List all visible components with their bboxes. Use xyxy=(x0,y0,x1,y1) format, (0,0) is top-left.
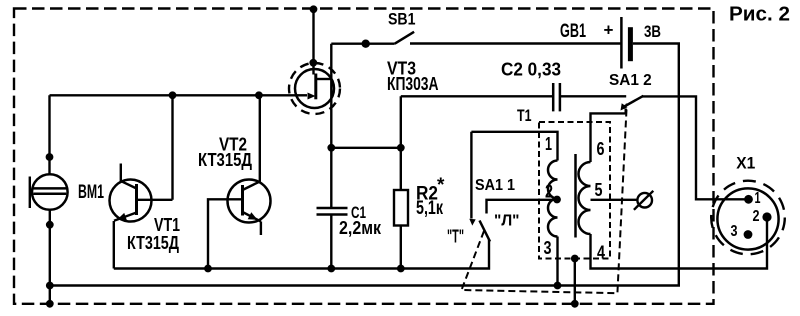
transistor VT2 xyxy=(228,180,271,223)
node screen to border xyxy=(571,300,579,308)
svg-text:Рис. 2: Рис. 2 xyxy=(729,3,790,26)
switch SB1 xyxy=(331,32,621,48)
wire battery minus to bottom rail xyxy=(50,44,679,286)
svg-text:*: * xyxy=(437,175,445,196)
wire T1 pin6 to SA1.2 lower contact xyxy=(591,109,626,163)
wire source link C1 to R2 xyxy=(331,147,401,149)
node drain to shield border xyxy=(310,5,318,13)
label X1 xyxy=(736,154,755,173)
svg-text:X1: X1 xyxy=(736,154,755,173)
node T1 pin3 rail junction xyxy=(554,282,562,290)
transformer T1 primary winding xyxy=(548,161,558,237)
svg-text:5: 5 xyxy=(595,180,603,200)
wire VT1 emitter drop xyxy=(113,221,115,269)
svg-text:КТ315Д: КТ315Д xyxy=(127,233,179,253)
node screen top xyxy=(571,255,579,263)
transistor VT1 xyxy=(110,164,173,222)
wire VT1 collector riser xyxy=(171,95,173,200)
label contact Т xyxy=(447,227,464,247)
wire VT3 source vertical to SB1 xyxy=(330,44,332,148)
transformer T1 core xyxy=(574,154,577,238)
transistor VT3 field-effect xyxy=(289,63,340,114)
label VT2 xyxy=(198,135,252,171)
microphone BM1 xyxy=(30,174,68,210)
caption Рис. 2 xyxy=(729,3,790,26)
node BM1 bottom rail junction xyxy=(46,282,54,290)
node C1 bottom junction xyxy=(327,265,335,273)
node R2 bottom junction xyxy=(397,265,405,273)
svg-text:VT1: VT1 xyxy=(154,215,180,235)
svg-text:SB1: SB1 xyxy=(388,9,416,28)
label C2 xyxy=(501,60,561,80)
node shield connection bottom-left xyxy=(46,300,54,308)
wire VT2 emitter stub xyxy=(260,222,262,236)
wire mid bus to C2 xyxy=(401,95,553,97)
node C1 top junction xyxy=(327,144,335,152)
svg-text:Т1: Т1 xyxy=(517,107,532,125)
wire T1 pin5 to shield tap xyxy=(591,199,638,201)
wire VT3 drain riser to shield xyxy=(312,9,314,74)
svg-text:ВМ1: ВМ1 xyxy=(78,182,104,203)
svg-text:2,2мк: 2,2мк xyxy=(339,218,382,238)
svg-text:GB1: GB1 xyxy=(560,21,586,42)
svg-text:1: 1 xyxy=(545,134,552,154)
label VT1 xyxy=(127,215,180,253)
svg-text:SA1 2: SA1 2 xyxy=(609,72,652,89)
capacitor C1 xyxy=(317,148,348,269)
connector X1 xyxy=(711,181,785,255)
resistor R2 xyxy=(394,96,408,268)
label Т1 xyxy=(517,107,532,125)
node VT2 collector junction xyxy=(255,91,263,99)
wire BM1 top drop xyxy=(48,95,50,174)
svg-text:3: 3 xyxy=(544,238,552,258)
label GB1 xyxy=(560,21,661,43)
svg-text:+: + xyxy=(604,21,614,40)
transformer T1 secondary winding xyxy=(579,162,591,234)
label contact Л xyxy=(494,213,520,230)
label SA1 1 xyxy=(475,177,515,194)
label SA1 2 xyxy=(609,72,652,89)
switch SA1.2 xyxy=(621,96,644,111)
label R2 xyxy=(416,175,445,219)
node drain housing exit xyxy=(309,59,317,67)
wire top bus (gate bias bus) xyxy=(50,94,297,96)
svg-text:КП303А: КП303А xyxy=(387,74,439,94)
svg-text:С2 0,33: С2 0,33 xyxy=(501,60,561,80)
svg-text:6: 6 xyxy=(597,139,605,159)
wire T1 pin3 to bottom rail xyxy=(556,237,558,286)
label VT3 xyxy=(387,59,439,95)
wire SA1.2 pole to X1 pin1 xyxy=(642,96,745,199)
wire C2 to SA1.2 upper contact xyxy=(560,95,626,97)
node T1 pin 2 junction xyxy=(553,196,561,204)
wire SA1.1 pole to T1 pin1 xyxy=(471,132,557,161)
node X1 pin 1 xyxy=(744,195,753,204)
svg-text:5,1к: 5,1к xyxy=(416,198,443,219)
mechanical link dashed line SA1.1-SA1.2 xyxy=(462,104,627,294)
svg-text:"Т": "Т" xyxy=(447,227,464,247)
switch SA1.1 xyxy=(469,132,557,242)
label BM1 xyxy=(78,182,104,203)
svg-text:4: 4 xyxy=(597,243,605,263)
wire VT2 collector riser xyxy=(259,95,261,181)
node VT2 base rail junction xyxy=(204,265,212,273)
svg-text:2: 2 xyxy=(753,208,760,225)
svg-text:2: 2 xyxy=(545,182,553,202)
label SB1 xyxy=(388,9,416,28)
node X1 pin 3 xyxy=(744,230,753,239)
node VT1 collector junction xyxy=(169,91,177,99)
label C1 xyxy=(339,203,382,238)
wire T1 pin4 to X1 pin2 xyxy=(591,216,768,268)
svg-text:3: 3 xyxy=(731,223,738,240)
node X1 pin 2 xyxy=(762,212,771,221)
wire BM1 bottom lead xyxy=(49,210,51,304)
node BM1 top junction xyxy=(46,153,54,161)
capacitor C2 xyxy=(553,83,560,111)
transformer T1 screen dashed box xyxy=(539,122,610,259)
shield tap symbol Ø xyxy=(634,191,653,210)
svg-text:3В: 3В xyxy=(644,22,661,41)
svg-text:"Л": "Л" xyxy=(494,213,520,230)
battery GB1 xyxy=(621,17,633,69)
wire T1 screen to shield border xyxy=(574,259,576,304)
node R2 top junction xyxy=(397,144,405,152)
svg-text:КТ315Д: КТ315Д xyxy=(198,150,252,170)
svg-text:SA1 1: SA1 1 xyxy=(475,177,515,194)
wire left common rail xyxy=(114,240,489,269)
svg-text:1: 1 xyxy=(755,190,761,207)
wire VT2 base lead xyxy=(208,199,243,268)
node BM1 bottom lead dot xyxy=(46,221,54,229)
